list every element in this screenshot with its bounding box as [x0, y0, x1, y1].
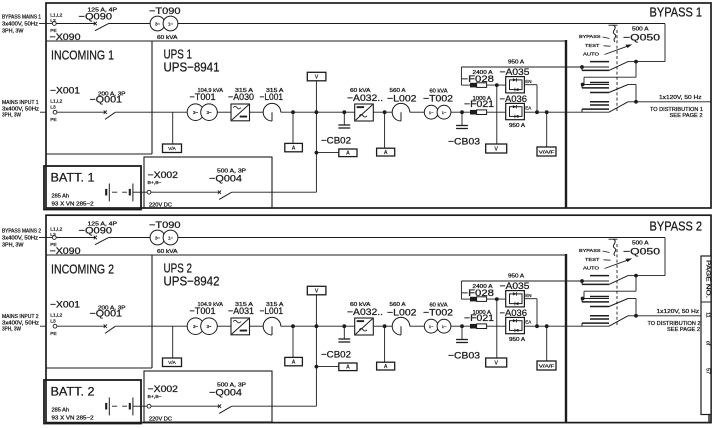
svg-text:3PH, 3W: 3PH, 3W — [2, 243, 24, 249]
svg-text:L3: L3 — [50, 318, 56, 324]
svg-text:220V DC: 220V DC — [149, 203, 172, 209]
svg-text:950 A: 950 A — [509, 123, 526, 129]
svg-text:BYPASS 1: BYPASS 1 — [650, 6, 703, 20]
svg-text:BYPASS 2: BYPASS 2 — [650, 220, 703, 234]
svg-text:57: 57 — [705, 368, 711, 374]
svg-text:3~: 3~ — [155, 236, 160, 241]
svg-text:B+,B−: B+,B− — [148, 180, 162, 186]
svg-text:AUTO: AUTO — [583, 52, 600, 57]
svg-text:−CB02: −CB02 — [321, 350, 351, 360]
svg-text:3~: 3~ — [193, 110, 198, 115]
svg-text:INCOMING 2: INCOMING 2 — [51, 262, 114, 277]
svg-text:−T002: −T002 — [423, 308, 453, 319]
svg-text:1~: 1~ — [168, 236, 173, 241]
svg-text:BYPASS MAINS 2: BYPASS MAINS 2 — [2, 229, 41, 235]
svg-text:3~: 3~ — [155, 22, 160, 27]
svg-text:L3: L3 — [50, 232, 56, 238]
svg-text:−L001: −L001 — [260, 306, 284, 317]
svg-text:V/A: V/A — [168, 146, 176, 151]
svg-text:L3: L3 — [50, 18, 56, 24]
svg-text:−L001: −L001 — [260, 92, 284, 103]
svg-text:−Q090: −Q090 — [79, 226, 113, 237]
svg-text:−F028: −F028 — [462, 74, 495, 85]
svg-text:1x120V, 50 Hz: 1x120V, 50 Hz — [657, 309, 700, 315]
svg-text:1~: 1~ — [429, 110, 434, 115]
svg-text:−CB02: −CB02 — [321, 136, 351, 146]
svg-text:1~: 1~ — [429, 324, 434, 329]
svg-text:MAINS INPUT 2: MAINS INPUT 2 — [2, 314, 39, 320]
svg-text:−Q001: −Q001 — [90, 95, 123, 106]
svg-text:−Q004: −Q004 — [209, 388, 242, 399]
svg-text:SEE PAGE 2: SEE PAGE 2 — [670, 113, 703, 119]
svg-text:L1,L2: L1,L2 — [50, 13, 62, 19]
svg-text:PAGE NO.: PAGE NO. — [705, 260, 711, 298]
svg-text:−Q050: −Q050 — [623, 33, 660, 44]
svg-text:11: 11 — [705, 312, 711, 317]
svg-text:BYPASS: BYPASS — [579, 34, 601, 39]
svg-text:BYPASS: BYPASS — [579, 248, 601, 253]
svg-text:UPS−8941: UPS−8941 — [164, 60, 220, 75]
svg-text:−L002: −L002 — [387, 308, 417, 319]
svg-text:−X001: −X001 — [50, 300, 80, 310]
svg-text:3PH, 3W: 3PH, 3W — [2, 112, 21, 118]
svg-text:INCOMING 1: INCOMING 1 — [51, 48, 114, 63]
svg-text:−X090: −X090 — [50, 32, 81, 42]
svg-text:3PH, 3W: 3PH, 3W — [2, 326, 21, 332]
svg-text:BATT. 2: BATT. 2 — [51, 387, 95, 399]
svg-text:−A030: −A030 — [228, 92, 254, 103]
svg-text:−A032..: −A032.. — [347, 307, 383, 318]
svg-text:BYPASS MAINS 1: BYPASS MAINS 1 — [2, 15, 41, 21]
svg-text:V/A/F: V/A/F — [539, 149, 555, 154]
svg-text:−Q004: −Q004 — [209, 174, 242, 185]
svg-text:BATT. 1: BATT. 1 — [51, 173, 95, 185]
svg-text:93 X VN 285−2: 93 X VN 285−2 — [52, 202, 94, 208]
svg-text:L1,L2: L1,L2 — [50, 99, 62, 105]
svg-text:L3: L3 — [50, 104, 56, 110]
svg-text:285 Ah: 285 Ah — [52, 408, 70, 414]
svg-text:−F021: −F021 — [464, 99, 494, 110]
svg-text:220V DC: 220V DC — [149, 417, 172, 423]
svg-text:−T001: −T001 — [190, 306, 216, 317]
svg-text:1~: 1~ — [442, 324, 447, 329]
svg-text:−A036: −A036 — [500, 94, 528, 105]
svg-text:3~: 3~ — [206, 110, 211, 115]
svg-text:950 A: 950 A — [508, 274, 525, 280]
svg-text:−T001: −T001 — [190, 92, 216, 103]
svg-text:−L002: −L002 — [387, 94, 417, 105]
svg-text:TEST: TEST — [585, 43, 600, 48]
svg-text:60 kVA: 60 kVA — [157, 249, 178, 255]
svg-text:3~: 3~ — [206, 324, 211, 329]
svg-text:EN: EN — [525, 293, 531, 298]
svg-text:−A035: −A035 — [500, 281, 530, 292]
svg-text:of: of — [705, 341, 711, 346]
svg-text:L1,L2: L1,L2 — [50, 313, 62, 319]
svg-text:1~: 1~ — [442, 110, 447, 115]
svg-text:−A036: −A036 — [500, 308, 528, 319]
svg-text:SEE PAGE 2: SEE PAGE 2 — [667, 327, 700, 333]
svg-text:93 X VN 285−2: 93 X VN 285−2 — [52, 416, 94, 422]
svg-text:−A031: −A031 — [228, 306, 254, 317]
svg-text:−A035: −A035 — [500, 67, 530, 78]
svg-text:V/A/F: V/A/F — [539, 363, 555, 368]
svg-text:PE: PE — [50, 117, 56, 123]
svg-text:60 kVA: 60 kVA — [157, 35, 178, 41]
svg-text:−Q001: −Q001 — [90, 309, 123, 320]
svg-text:1~: 1~ — [168, 22, 173, 27]
svg-text:EA: EA — [525, 105, 531, 110]
svg-text:B+,B−: B+,B− — [148, 394, 162, 400]
svg-text:3~: 3~ — [193, 324, 198, 329]
svg-text:−F028: −F028 — [462, 288, 495, 299]
svg-text:V/A: V/A — [168, 360, 176, 365]
svg-text:PE: PE — [50, 331, 56, 337]
svg-text:AUTO: AUTO — [583, 266, 600, 271]
svg-text:EA: EA — [525, 319, 531, 324]
svg-text:3x400V, 50Hz: 3x400V, 50Hz — [2, 236, 39, 242]
svg-text:−CB03: −CB03 — [448, 351, 480, 362]
svg-text:3x400V, 50Hz: 3x400V, 50Hz — [2, 22, 39, 28]
svg-text:−T090: −T090 — [149, 220, 181, 231]
svg-text:−T090: −T090 — [149, 6, 181, 17]
svg-text:−CB03: −CB03 — [448, 137, 480, 148]
svg-text:−X090: −X090 — [50, 246, 81, 256]
svg-text:−A032..: −A032.. — [347, 93, 383, 104]
svg-text:−Q090: −Q090 — [79, 12, 113, 23]
svg-text:MAINS INPUT 1: MAINS INPUT 1 — [2, 100, 39, 106]
svg-text:−F021: −F021 — [464, 313, 494, 324]
svg-text:L1,L2: L1,L2 — [50, 227, 62, 233]
svg-text:285 Ah: 285 Ah — [52, 194, 70, 200]
svg-text:−X001: −X001 — [50, 86, 80, 96]
svg-text:3PH, 3W: 3PH, 3W — [2, 29, 24, 35]
svg-text:TEST: TEST — [585, 257, 600, 262]
svg-text:EN: EN — [525, 79, 531, 84]
svg-text:−T002: −T002 — [423, 94, 453, 105]
svg-text:−X002: −X002 — [148, 170, 179, 180]
svg-text:−X002: −X002 — [148, 384, 179, 394]
svg-text:950 A: 950 A — [509, 337, 526, 343]
svg-text:1x120V, 50 Hz: 1x120V, 50 Hz — [659, 95, 702, 101]
svg-text:−Q050: −Q050 — [623, 247, 660, 258]
svg-text:950 A: 950 A — [508, 60, 525, 66]
svg-text:UPS−8942: UPS−8942 — [164, 274, 220, 289]
